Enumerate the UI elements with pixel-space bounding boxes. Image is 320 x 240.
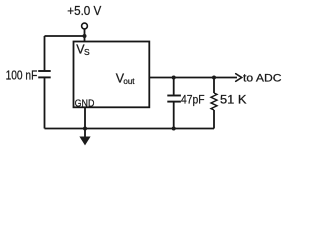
svg-text:100 nF: 100 nF: [6, 69, 38, 83]
svg-text:S: S: [84, 47, 90, 57]
svg-text:out: out: [123, 77, 135, 86]
svg-text:47pF: 47pF: [181, 92, 205, 106]
svg-text:to ADC: to ADC: [243, 72, 282, 84]
svg-text:51 K: 51 K: [220, 92, 247, 106]
svg-text:GND: GND: [75, 97, 95, 109]
svg-text:+5.0 V: +5.0 V: [67, 4, 102, 18]
